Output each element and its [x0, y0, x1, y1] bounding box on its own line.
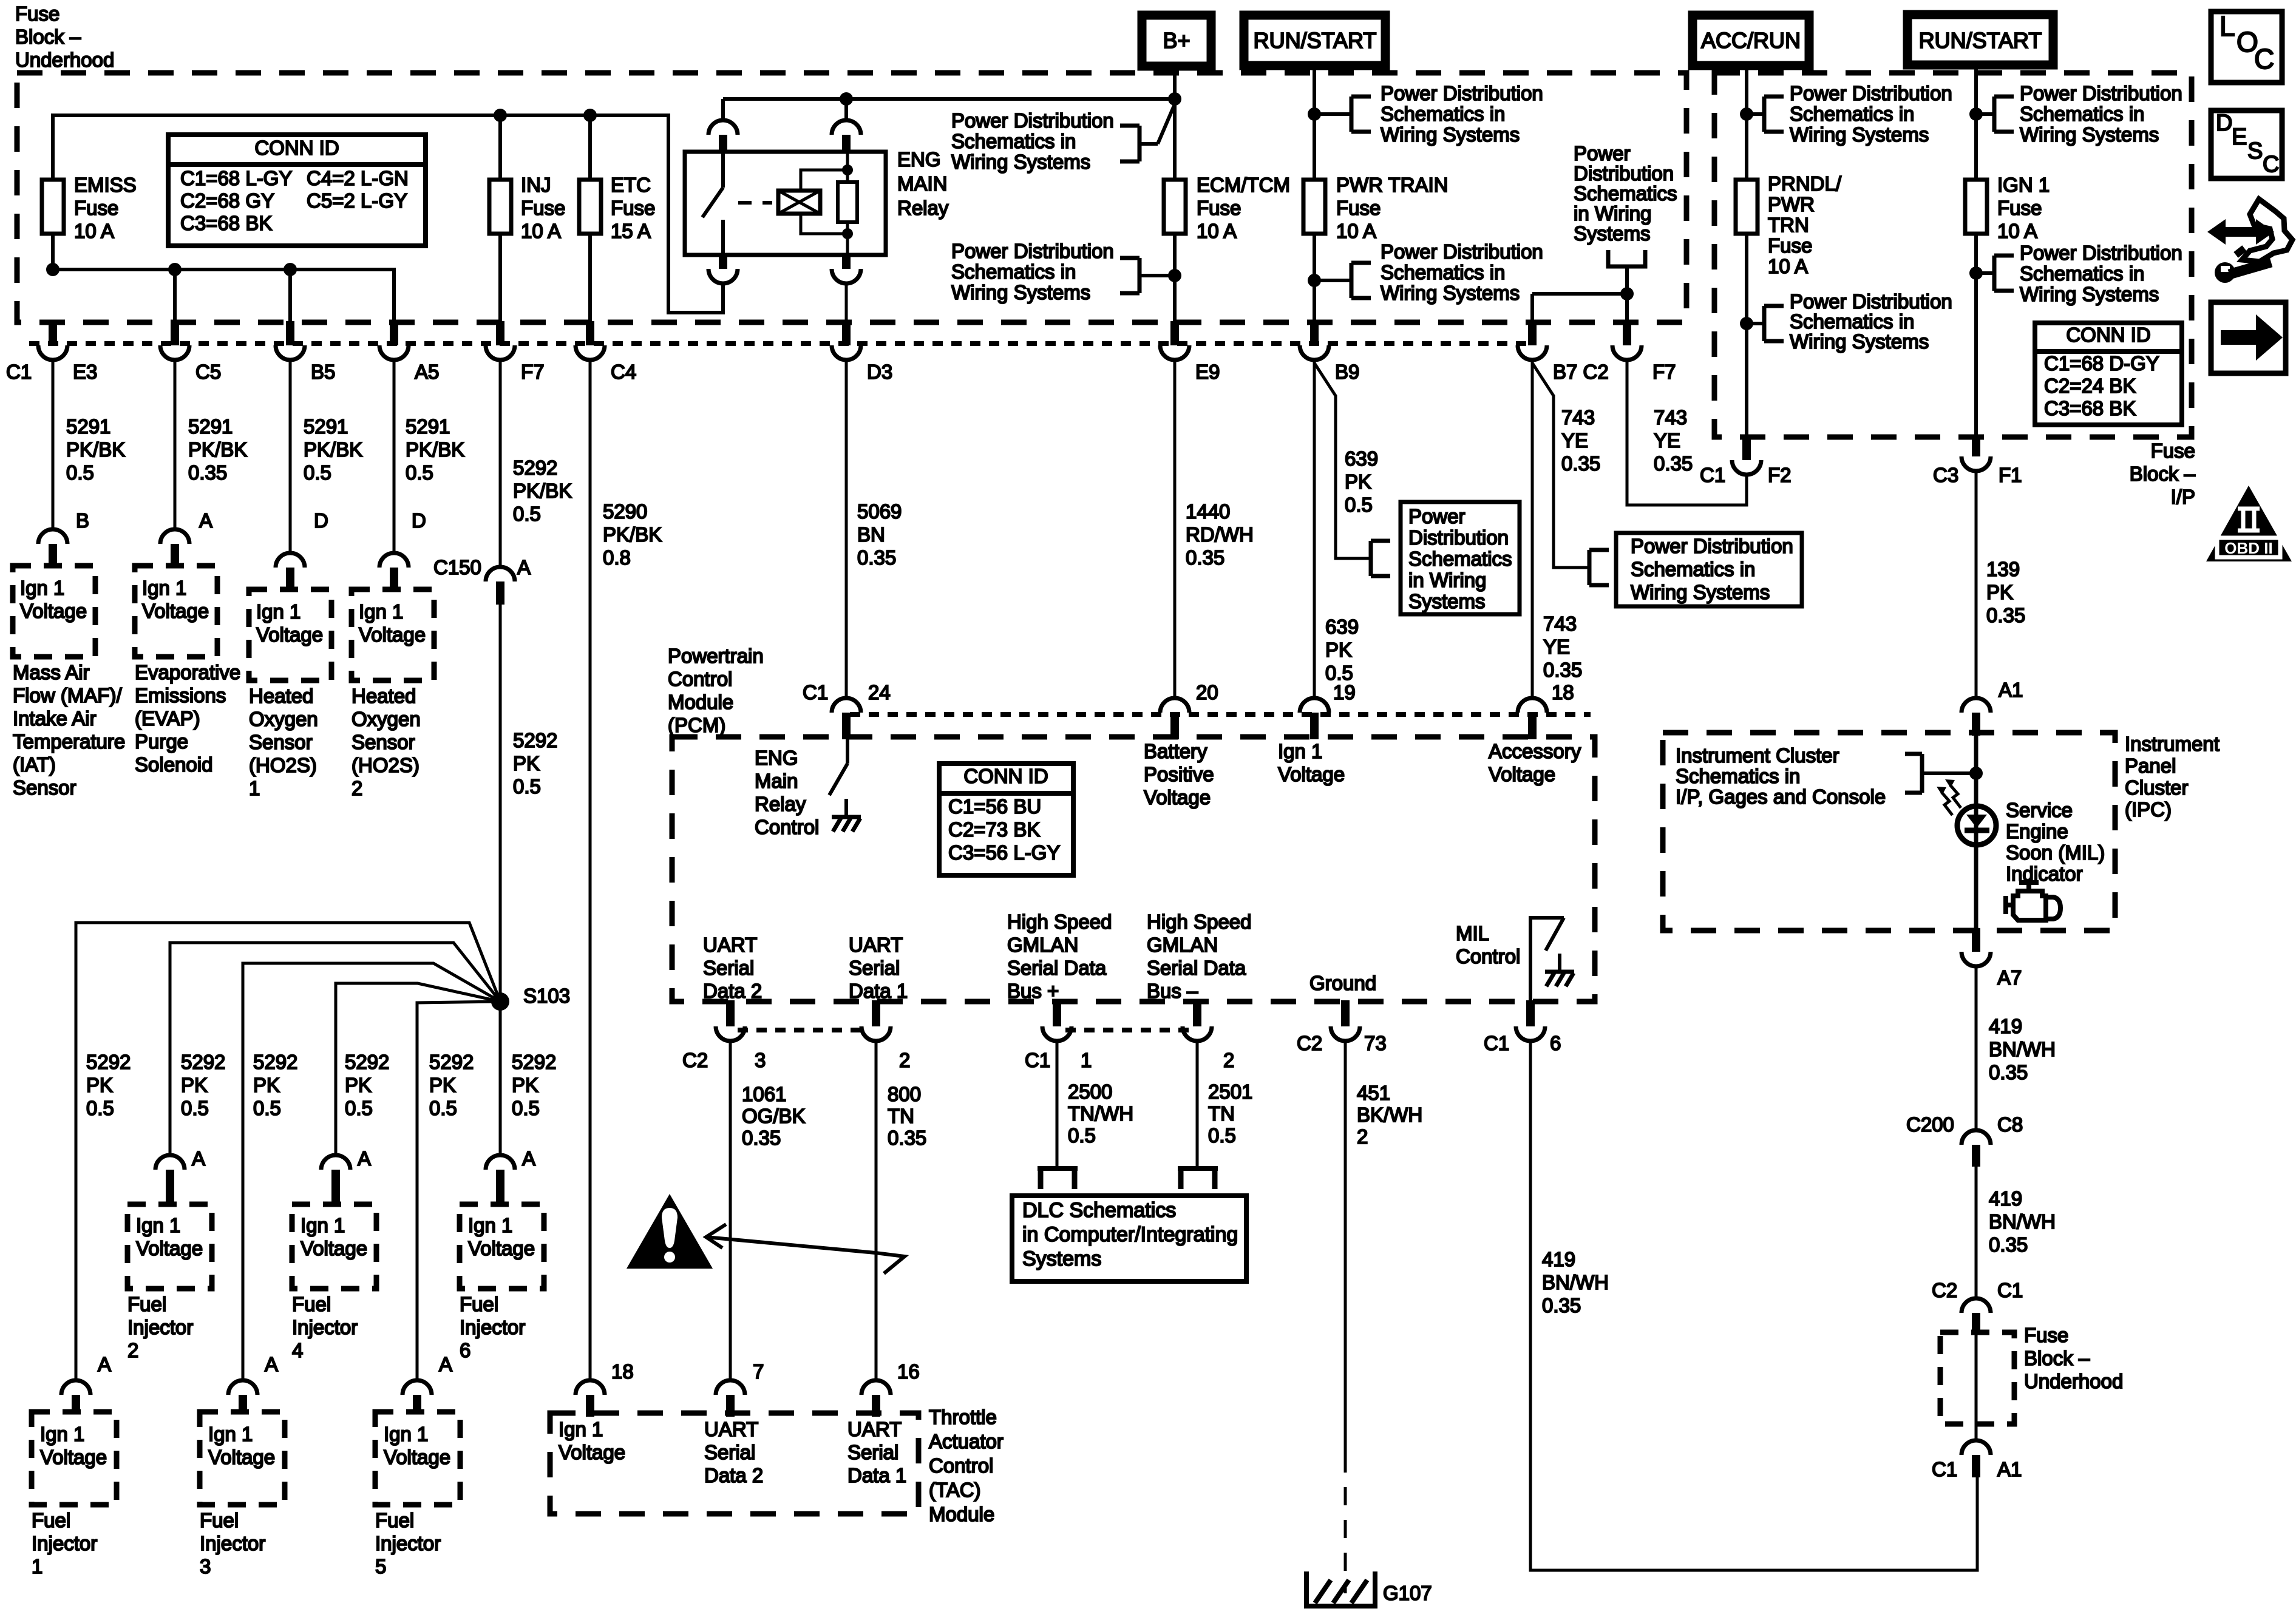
svg-text:ETCFuse15 A: ETCFuse15 A [611, 174, 655, 242]
wire 5291 PK/BK to component at x=478 [289, 360, 292, 554]
ACC/RUN power tap box [1693, 15, 1809, 66]
svg-text:A1: A1 [1999, 679, 2023, 701]
wire IPC lamp to A7 [1974, 853, 1978, 931]
connector A7 exit [1972, 928, 1980, 952]
junction EMISS bus at B5 [284, 263, 297, 276]
component box at 410 [249, 589, 331, 680]
svg-text:20: 20 [1196, 681, 1218, 703]
svg-text:F2: F2 [1768, 464, 1792, 486]
connector F2 exit [1742, 436, 1751, 460]
relay top-left connector [708, 120, 738, 135]
fuse ETC [588, 115, 592, 180]
conn id table underhood [168, 135, 426, 246]
connector PCM 20 [1160, 698, 1189, 713]
wire accessory feed pair [1532, 292, 1627, 296]
relay bottom-left connector [719, 255, 727, 269]
pcm MIL control ground [1558, 954, 1561, 972]
fuel injector 5 box [375, 1412, 460, 1505]
svg-text:RUN/START: RUN/START [1254, 28, 1377, 53]
fuel injector 3 box [200, 1412, 285, 1505]
svg-text:CONN ID: CONN ID [963, 765, 1048, 787]
plug GMLAN+ to DLC [1038, 1166, 1078, 1171]
svg-text:A: A [98, 1353, 111, 1375]
fuse block IP dashed box [1714, 73, 2192, 437]
svg-text:E: E [2232, 124, 2247, 150]
pcm exit dotted row C1 [1065, 1028, 1190, 1032]
junction relay feed at B+ [1168, 92, 1181, 106]
svg-text:C1: C1 [1932, 1458, 1957, 1480]
fuse block underhood dashed box [17, 73, 1686, 322]
wire relay top feed [723, 97, 1175, 101]
svg-text:C1: C1 [803, 681, 828, 703]
wire 2501 TN GMLAN- [1196, 1041, 1199, 1167]
svg-text:UARTSerialData 2: UARTSerialData 2 [703, 934, 762, 1002]
connector PCM exit MIL [1526, 1000, 1535, 1026]
engine icon [2006, 883, 2060, 920]
svg-text:Ground: Ground [1309, 972, 1376, 994]
reference Power Distribution upper (RUN/START) [1314, 112, 1351, 116]
fuse block underhood small dashed box [1940, 1332, 2014, 1424]
connector injector 2 [155, 1155, 185, 1170]
connector A5 [390, 321, 398, 345]
wire 5291 PK/BK to component at x=288 [174, 360, 177, 531]
wire 743 YE B7C2 to PCM [1531, 360, 1534, 697]
svg-text:7: 7 [753, 1360, 764, 1383]
boxed reference Power Distribution (B7C2) [1616, 533, 1802, 606]
connector C5 [171, 321, 179, 345]
connector IPC A1 [1961, 698, 1991, 713]
svg-text:A: A [199, 509, 212, 532]
connector PCM exit Ground [1341, 1000, 1350, 1026]
B+ power tap box [1142, 15, 1211, 66]
svg-text:B: B [76, 509, 89, 532]
svg-text:D: D [314, 509, 328, 532]
wire RUN/START left drop [1313, 66, 1316, 328]
reference Power Distribution lower (RUN/START) [1314, 279, 1351, 282]
fuse PRNDL/PWR TRN [1736, 180, 1758, 234]
junction ACC/RUN upper ref [1740, 107, 1753, 121]
bracket B9 reference [1369, 541, 1373, 576]
connector terminal D x=478 [276, 553, 305, 568]
svg-text:3: 3 [755, 1049, 766, 1071]
svg-text:BatteryPositiveVoltage: BatteryPositiveVoltage [1144, 740, 1214, 808]
svg-text:C2: C2 [682, 1049, 708, 1071]
connector C200 C8 [1961, 1130, 1991, 1145]
svg-text:6: 6 [1550, 1032, 1561, 1054]
vehicle location icon [2207, 219, 2274, 245]
wire 639 PK B9 to PCM [1313, 360, 1316, 697]
relay switch [721, 152, 725, 188]
connector injector 1 [61, 1380, 90, 1395]
junction IGN1 upper ref [1969, 107, 1983, 121]
relay resistor leads [846, 153, 849, 182]
svg-text:E3: E3 [73, 361, 97, 383]
connector PCM 24 [832, 698, 861, 713]
wire 800 TN UART1 [875, 1041, 878, 1379]
junction RUN/START upper ref [1308, 107, 1321, 121]
fuel injector 6 box [460, 1204, 544, 1289]
wire 2500 TN/WH GMLAN+ [1056, 1041, 1059, 1167]
wire 419 BN/WH C200-C2 [1975, 1167, 1978, 1297]
junction relay resistor bottom [842, 228, 853, 239]
svg-text:A: A [265, 1353, 278, 1375]
junction IPC bracket [1969, 767, 1983, 780]
svg-text:D: D [412, 509, 426, 532]
svg-text:RUN/START: RUN/START [1919, 28, 2042, 53]
connector PCM exit UART2 [726, 1000, 735, 1026]
fuse INJ [498, 115, 502, 180]
svg-text:B9: B9 [1335, 361, 1359, 383]
wire injector 4 branch [336, 983, 500, 1154]
pcm dashed box [672, 737, 1595, 1002]
svg-text:UARTSerialData 1: UARTSerialData 1 [849, 934, 908, 1002]
pcm connector face dotted [850, 712, 1591, 717]
wire through small fuse block [1975, 1335, 1978, 1439]
svg-text:16: 16 [897, 1360, 920, 1383]
wire injector 6 branch [499, 1002, 502, 1154]
fuel injector 4 box [292, 1204, 376, 1289]
svg-text:C2: C2 [1932, 1279, 1957, 1301]
wire ECM/TCM to E9 [1173, 234, 1177, 328]
svg-text:ThrottleActuatorControl(TAC)Mo: ThrottleActuatorControl(TAC)Module [929, 1406, 1004, 1525]
svg-text:OBD II: OBD II [2224, 539, 2272, 557]
wire 5291 PK/BK to component at x=87 [52, 360, 55, 531]
connector TAC 16 [861, 1380, 891, 1395]
svg-text:ACC/RUN: ACC/RUN [1701, 28, 1801, 53]
svg-text:2: 2 [899, 1049, 910, 1071]
reference Power Distribution (IGN1 lower) [1976, 271, 1994, 275]
wire 5292 PK to S103 [499, 605, 502, 1002]
tac module dashed box [550, 1413, 919, 1514]
svg-text:L: L [2220, 10, 2235, 42]
bracket B7C2 reference [1588, 550, 1592, 585]
OBD II triangle symbol [2206, 486, 2292, 561]
junction RUN/START lower ref [1308, 274, 1321, 287]
wire 5291 PK/BK to component at x=649 [393, 360, 396, 554]
svg-text:B5: B5 [311, 361, 335, 383]
connector injector 5 [402, 1380, 432, 1395]
svg-text:CONN ID: CONN ID [254, 137, 339, 159]
connector injector 4 [321, 1155, 350, 1170]
plug GMLAN- to DLC [1178, 1166, 1218, 1171]
connector F7 (INJ) [496, 321, 504, 345]
svg-text:UARTSerialData 1: UARTSerialData 1 [847, 1418, 906, 1486]
wire RUN/START right drop [1974, 65, 1978, 436]
svg-text:C4=2 L-GNC5=2 L-GY: C4=2 L-GNC5=2 L-GY [307, 167, 409, 212]
junction EMISS bus at C5 [168, 263, 182, 276]
connector F1 exit [1972, 436, 1980, 456]
connector terminal B x=87 [38, 529, 67, 544]
svg-text:A: A [439, 1353, 452, 1375]
connector PCM exit GMLAN+ [1053, 1000, 1061, 1026]
junction accessory feed [1620, 287, 1634, 300]
wire B5 drop [288, 269, 292, 328]
fuse PWR TRAIN [1303, 180, 1325, 234]
connector B9 [1310, 321, 1319, 345]
wire 1061 OG/BK UART2 [729, 1041, 732, 1379]
DESC legend box [2211, 110, 2282, 178]
connector B7 C2 [1528, 321, 1537, 345]
svg-text:D3: D3 [867, 361, 892, 383]
wire C5 drop [173, 269, 177, 328]
wire 5069 BN D3 to PCM [845, 360, 848, 697]
svg-text:C150: C150 [433, 556, 481, 578]
svg-text:18: 18 [1552, 681, 1574, 703]
lamp light arrows [1950, 785, 1961, 808]
splice S103 [491, 992, 509, 1011]
component box at 579 [352, 589, 434, 680]
junction B+ lower reference [1168, 269, 1181, 282]
svg-text:A: A [358, 1147, 371, 1170]
connector C4 [586, 321, 594, 345]
connector terminal D x=649 [379, 553, 409, 568]
svg-text:A5: A5 [415, 361, 439, 383]
svg-text:B+: B+ [1163, 28, 1190, 53]
boxed reference DLC Schematics [1012, 1196, 1246, 1281]
wire B9 reference branch [1314, 363, 1370, 558]
svg-text:C4: C4 [611, 361, 636, 383]
svg-text:18: 18 [611, 1360, 634, 1383]
svg-text:S: S [2247, 138, 2263, 164]
connector injector 3 [228, 1380, 257, 1395]
svg-text:A: A [517, 556, 531, 578]
svg-text:C: C [2254, 43, 2274, 75]
wire injector 3 branch [243, 963, 500, 1379]
wire relay output bus [53, 115, 723, 313]
MIL indicator lamp [1957, 806, 1996, 845]
svg-text:A: A [192, 1147, 205, 1170]
fuse IGN 1 [1965, 180, 1987, 234]
pcm exit dotted row C2 [738, 1028, 868, 1032]
svg-text:C1: C1 [1997, 1279, 2023, 1301]
wire 139 PK [1975, 471, 1978, 697]
relay top-right connector [832, 120, 861, 135]
junction EMISS bus at E3 [46, 263, 59, 276]
component box at 222 [135, 566, 217, 657]
pcm relay control ground [844, 799, 848, 817]
boxed reference Power Distribution (B9) [1401, 502, 1520, 614]
connector B5 [286, 321, 294, 345]
relay coil [778, 191, 820, 214]
ground G107 symbol [1306, 1571, 1375, 1606]
svg-text:B7 C2: B7 C2 [1553, 361, 1609, 383]
svg-text:C200: C200 [1906, 1113, 1954, 1136]
wire relay pin30 drop [721, 99, 725, 121]
svg-text:G107: G107 [1383, 1582, 1432, 1604]
conn id table PCM [939, 764, 1073, 875]
fuse ECM/TCM [1164, 180, 1186, 234]
svg-text:A1: A1 [1997, 1458, 2022, 1480]
wire EMISS fuse feed bus [53, 234, 394, 328]
fuse EMISS [42, 180, 64, 234]
svg-text:D: D [2216, 110, 2232, 136]
reference Power Distribution (IGN1 upper) [1976, 112, 1994, 116]
junction bus-ETC fuse [583, 109, 597, 122]
relay bottom-right connector [842, 255, 851, 269]
svg-text:C1: C1 [6, 361, 32, 383]
svg-text:C1: C1 [1700, 464, 1725, 486]
wire IPC lamp feed [1974, 736, 1978, 807]
junction ACC/RUN lower ref [1740, 317, 1753, 330]
connector PCM exit GMLAN- [1193, 1000, 1201, 1026]
component box at 21 [13, 566, 95, 657]
RUN/START power tap box (left) [1244, 15, 1385, 66]
wire 1440 RD/WH E9 to PCM [1173, 360, 1177, 697]
wire 419 BN/WH A7-C200 [1975, 966, 1978, 1129]
wire injector 2 branch [170, 943, 500, 1154]
warning triangle [627, 1194, 713, 1269]
fuel injector 2 box [127, 1204, 212, 1289]
svg-text:C: C [2263, 152, 2279, 177]
svg-text:C3: C3 [1933, 464, 1958, 486]
connector terminal A x=288 [160, 529, 189, 544]
wire injector 1 branch [76, 923, 500, 1379]
wire B7C2 reference branch [1532, 363, 1588, 568]
svg-text:1: 1 [1081, 1049, 1092, 1071]
connector E9 [1170, 321, 1179, 345]
svg-text:S103: S103 [523, 985, 570, 1007]
warning pointer arrow [706, 1224, 726, 1248]
conn id table IP [2035, 323, 2182, 425]
svg-text:F7: F7 [1652, 361, 1676, 383]
wire injector 5 branch [417, 1002, 500, 1379]
wire 419 BN/WH MIL loop [1530, 1041, 1977, 1570]
connector D3 [842, 321, 851, 345]
svg-text:UARTSerialData 2: UARTSerialData 2 [704, 1418, 763, 1486]
svg-text:2: 2 [1223, 1049, 1234, 1071]
junction relay resistor top [842, 164, 853, 175]
junction IGN1 lower ref [1969, 266, 1983, 280]
svg-text:24: 24 [868, 681, 891, 703]
forward arrow legend box [2211, 302, 2286, 373]
connector F7 (IGN) [1623, 321, 1631, 345]
pcm MIL control switch [1530, 918, 1564, 1006]
connector E3 [49, 321, 57, 345]
relay coil leads [801, 170, 847, 191]
connector PCM 19 [1300, 698, 1329, 713]
connector injector 6 [486, 1155, 515, 1170]
RUN/START power tap box (right) [1907, 15, 2053, 65]
svg-text:C5: C5 [195, 361, 221, 383]
fuel injector 1 box [32, 1412, 117, 1505]
connector C1 A1 [1961, 1440, 1991, 1455]
LOC legend box [2211, 12, 2282, 83]
svg-text:C1: C1 [1025, 1049, 1050, 1071]
reference Power Distribution (ACC/RUN upper) [1747, 112, 1764, 116]
svg-text:C8: C8 [1997, 1113, 2023, 1136]
wire 5290 PK/BK C4 to TAC [589, 360, 592, 1379]
ipc dashed box [1663, 733, 2115, 931]
svg-text:C1: C1 [1484, 1032, 1509, 1054]
connector C2 C1 [1961, 1298, 1991, 1313]
svg-text:CONN ID: CONN ID [2066, 324, 2150, 346]
svg-text:73: 73 [1364, 1032, 1387, 1054]
junction relay coil feed [840, 92, 853, 106]
svg-text:F1: F1 [1999, 464, 2022, 486]
connector PCM 18 [1518, 698, 1547, 713]
svg-text:F7: F7 [521, 361, 545, 383]
reference Power Distribution (ACC/RUN lower) [1747, 322, 1764, 325]
relay resistor [838, 182, 857, 222]
wire 451 BK/WH ground [1344, 1041, 1347, 1454]
svg-text:C2: C2 [1297, 1032, 1322, 1054]
wire relay pin86 drop [844, 99, 848, 121]
wire ACC/RUN drop [1745, 66, 1748, 436]
connector C150 [486, 567, 515, 581]
wire ground dashed section [1344, 1454, 1347, 1593]
svg-text:A7: A7 [1997, 966, 2022, 989]
relay switch link (dashed) [738, 201, 772, 205]
wire 5292 PK/BK F7 to C150 [499, 360, 502, 566]
connector TAC 7 [716, 1380, 745, 1395]
fuse block underhood connector face (dotted) [29, 341, 1533, 346]
wire B+ drop [1173, 66, 1177, 180]
connector PCM exit UART1 [872, 1000, 880, 1026]
svg-text:19: 19 [1333, 681, 1356, 703]
connector TAC 18 [576, 1380, 605, 1395]
svg-text:E9: E9 [1195, 361, 1220, 383]
wire 743 YE F7 to F2 [1627, 360, 1747, 505]
pcm ENG main relay control switch [846, 739, 849, 764]
junction bus-INJ fuse [494, 109, 507, 122]
svg-text:A: A [522, 1147, 535, 1170]
relay ENG MAIN box [685, 152, 886, 255]
